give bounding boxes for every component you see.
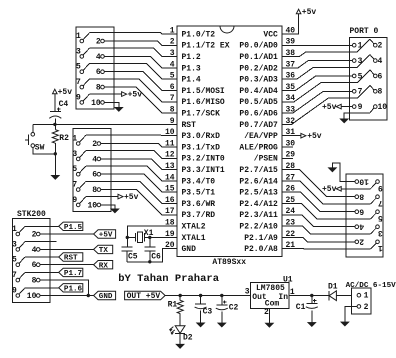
svg-text:18: 18	[165, 219, 175, 228]
ground below C2	[218, 323, 226, 327]
svg-text:bY Tahan Prahara: bY Tahan Prahara	[118, 273, 220, 285]
svg-text:XTAL2: XTAL2	[182, 223, 206, 232]
wire J1 to P1.0-P1.7	[90, 33, 178, 113]
svg-text:4: 4	[32, 246, 37, 255]
svg-text:P3.4/T0: P3.4/T0	[182, 177, 216, 186]
svg-text:30: 30	[286, 139, 296, 148]
svg-text:29: 29	[286, 151, 296, 160]
svg-text:10: 10	[27, 292, 37, 301]
supply +5v at PORT2 pin9	[322, 185, 371, 194]
svg-text:D2: D2	[183, 334, 193, 343]
svg-text:4: 4	[92, 155, 97, 164]
connector X2 AC/DC input	[346, 282, 396, 314]
svg-text:C3: C3	[203, 307, 213, 316]
wire STK200 pin8 to GND	[40, 280, 90, 297]
svg-text:33: 33	[286, 106, 296, 115]
capacitor C1	[296, 296, 318, 323]
net flag P1.6	[25, 284, 83, 294]
svg-text:+5v: +5v	[307, 132, 322, 141]
svg-text:R1: R1	[168, 301, 178, 310]
svg-text:4: 4	[96, 53, 101, 62]
svg-text:P3.2/INT0: P3.2/INT0	[182, 155, 225, 164]
svg-text:RX: RX	[99, 262, 109, 270]
label PORT 0	[350, 27, 379, 36]
svg-text:P1.7/SCK: P1.7/SCK	[182, 110, 221, 119]
ground below C1	[308, 322, 316, 326]
net flag OUT +5V	[125, 291, 181, 301]
resistor R2	[52, 124, 69, 153]
svg-text:10: 10	[359, 176, 369, 185]
ground below R2	[51, 152, 59, 179]
svg-text:P1.5: P1.5	[64, 224, 83, 232]
svg-text:P3.0/RxD: P3.0/RxD	[182, 132, 221, 141]
wire +5V rail	[179, 294, 251, 297]
net flag RX	[40, 261, 113, 271]
svg-text:2: 2	[364, 303, 369, 312]
connector STK200 pins	[12, 225, 40, 301]
wire XTAL ground rail to GND pin	[127, 249, 166, 264]
svg-text:In: In	[278, 293, 288, 302]
svg-text:P3.7/RD: P3.7/RD	[182, 211, 216, 220]
svg-text:PORT 0: PORT 0	[350, 27, 379, 36]
capacitor C4	[49, 100, 68, 124]
svg-text:P2.3/A11: P2.3/A11	[239, 211, 278, 220]
ground at PORT2 pin10	[328, 163, 355, 182]
connector PORT0 header box	[350, 38, 388, 120]
svg-text:9: 9	[358, 103, 363, 112]
ground at J2 pin10	[101, 205, 119, 213]
svg-text:ALE/PROG: ALE/PROG	[239, 143, 278, 152]
net flag +5V	[40, 230, 116, 240]
crystal X1	[136, 229, 154, 242]
svg-text:C4: C4	[59, 100, 69, 109]
svg-text:P1.6/MISO: P1.6/MISO	[182, 98, 225, 107]
wire RST net	[33, 123, 166, 126]
wire J2 to P3.0-P3.7	[86, 135, 177, 215]
svg-text:OUT +5V: OUT +5V	[127, 292, 161, 301]
svg-text:P2.0/A8: P2.0/A8	[244, 245, 278, 254]
wire XTAL1 node	[126, 236, 167, 239]
svg-text:10: 10	[378, 103, 388, 112]
label AT89Sxx	[212, 258, 246, 267]
capacitor C3	[195, 296, 213, 323]
connector J1 10-pin header box	[76, 27, 114, 109]
svg-text:/PSEN: /PSEN	[254, 155, 278, 164]
svg-text:/EA/VPP: /EA/VPP	[244, 132, 278, 141]
ground below D2	[176, 334, 184, 349]
svg-text:RST: RST	[182, 121, 197, 130]
svg-text:U1: U1	[283, 275, 293, 284]
supply +5v at PORT0 pin9	[322, 103, 352, 112]
LED D2	[170, 326, 193, 343]
svg-text:VCC: VCC	[263, 30, 278, 39]
svg-text:P3.1/TxD: P3.1/TxD	[182, 143, 221, 152]
svg-text:XTAL1: XTAL1	[182, 234, 206, 243]
wire ACDC pin2 to ground	[341, 306, 357, 326]
supply +5v flag at J1 pin9	[90, 91, 143, 100]
svg-text:P2.2/A10: P2.2/A10	[239, 223, 278, 232]
connector PORT0 pins	[352, 39, 387, 113]
svg-text:AT89Sxx: AT89Sxx	[212, 258, 246, 267]
svg-text:4: 4	[359, 222, 364, 231]
svg-text:4: 4	[378, 57, 383, 66]
svg-text:R2: R2	[59, 134, 69, 143]
svg-text:P1.4: P1.4	[182, 76, 201, 85]
svg-text:GND: GND	[99, 293, 113, 301]
svg-text:2: 2	[264, 308, 269, 317]
MCU left pins 1-20 labels	[165, 26, 230, 254]
connector J2 pins	[72, 134, 100, 210]
svg-text:P0.2/AD2: P0.2/AD2	[239, 64, 278, 73]
svg-text:2: 2	[96, 37, 101, 46]
connector J1 pins	[76, 32, 104, 108]
svg-text:2: 2	[378, 42, 383, 51]
resistor R1	[168, 296, 184, 326]
svg-text:8: 8	[92, 186, 97, 195]
switch SW pushbutton	[25, 124, 56, 153]
svg-text:C1: C1	[296, 303, 306, 312]
capacitor C5	[121, 247, 138, 262]
wire XTAL2 to C5	[127, 226, 166, 247]
svg-text:P2.1/A9: P2.1/A9	[244, 234, 278, 243]
wire 7805 Com to ground	[265, 309, 273, 328]
svg-text:6: 6	[378, 72, 383, 81]
wire STK200 pin3 stub	[25, 241, 57, 243]
svg-text:P3.3/INT1: P3.3/INT1	[182, 166, 225, 175]
svg-text:X1: X1	[144, 229, 154, 238]
svg-text:P1.5/MOSI: P1.5/MOSI	[182, 87, 225, 96]
svg-text:1: 1	[364, 292, 369, 301]
svg-text:+5v: +5v	[322, 103, 337, 112]
svg-text:RST: RST	[64, 255, 78, 263]
svg-text:+5v: +5v	[58, 88, 73, 97]
capacitor C2	[216, 296, 239, 323]
svg-text:10: 10	[87, 201, 97, 210]
connector PORT2 header box	[346, 174, 383, 257]
svg-text:2: 2	[32, 230, 37, 239]
svg-text:P3.6/WR: P3.6/WR	[182, 200, 216, 209]
wire P0 bus to PORT0	[292, 39, 371, 124]
MCU right pins 40-21 labels	[239, 26, 295, 254]
svg-text:P0.1/AD1: P0.1/AD1	[239, 53, 278, 62]
svg-text:P1.0/T2: P1.0/T2	[182, 30, 216, 39]
svg-text:P0.4/AD4: P0.4/AD4	[239, 87, 278, 96]
svg-text:20: 20	[165, 241, 175, 250]
svg-text:C2: C2	[229, 303, 239, 312]
svg-text:1: 1	[378, 243, 383, 252]
svg-text:8: 8	[359, 192, 364, 201]
net flag RST	[25, 253, 83, 263]
svg-text:P1.7: P1.7	[64, 270, 83, 278]
diode D1	[328, 282, 352, 300]
svg-text:STK200: STK200	[17, 210, 46, 219]
svg-text:AC/DC 6-15V: AC/DC 6-15V	[346, 282, 396, 290]
svg-text:+5v: +5v	[322, 185, 337, 194]
svg-text:6: 6	[92, 171, 97, 180]
wire 7805 In to D1	[289, 294, 329, 297]
svg-text:P2.5/A13: P2.5/A13	[239, 189, 278, 198]
label bY Tahan Prahara	[118, 273, 220, 285]
wire P2 bus to PORT2	[293, 170, 371, 249]
svg-text:P1.3: P1.3	[182, 64, 201, 73]
svg-text:C6: C6	[151, 252, 161, 261]
svg-text:2: 2	[359, 237, 364, 246]
svg-text:32: 32	[286, 117, 296, 126]
svg-text:6: 6	[96, 68, 101, 77]
net flag P1.7	[25, 268, 83, 278]
ground at J1 pin10	[104, 102, 123, 111]
svg-text:2: 2	[92, 140, 97, 149]
regulator U1 LM7805	[245, 275, 295, 317]
capacitor C6	[144, 237, 161, 261]
svg-text:P0.0/AD0: P0.0/AD0	[239, 42, 278, 51]
svg-text:P0.5/AD5: P0.5/AD5	[239, 98, 278, 107]
svg-text:SW: SW	[35, 144, 45, 153]
svg-text:P2.7/A15: P2.7/A15	[239, 166, 278, 175]
svg-text:10: 10	[91, 99, 101, 108]
svg-text:5: 5	[378, 213, 383, 222]
svg-text:P3.5/T1: P3.5/T1	[182, 189, 216, 198]
svg-text:P1.6: P1.6	[64, 285, 83, 293]
svg-text:19: 19	[165, 230, 175, 239]
svg-text:P2.4/A12: P2.4/A12	[239, 200, 278, 209]
IC AT89Sxx MCU body	[177, 26, 282, 257]
svg-text:+5v: +5v	[302, 8, 317, 17]
svg-text:6: 6	[359, 207, 364, 216]
svg-text:9: 9	[170, 117, 175, 126]
svg-text:6: 6	[32, 261, 37, 270]
net flag TX	[40, 245, 113, 255]
connector STK200 header box	[12, 218, 50, 302]
svg-text:+5v: +5v	[124, 193, 139, 202]
svg-text:C5: C5	[128, 252, 138, 261]
svg-text:D1: D1	[328, 282, 338, 291]
supply +5v to /EA pin31	[293, 132, 322, 141]
svg-text:+5v: +5v	[128, 91, 143, 100]
supply +5v to VCC pin40	[293, 8, 317, 34]
supply +5v flag at J2 pin9	[86, 193, 139, 202]
svg-text:GND: GND	[182, 245, 197, 254]
svg-text:P0.7/AD7: P0.7/AD7	[239, 121, 278, 130]
svg-text:TX: TX	[99, 247, 109, 255]
svg-text:P2.6/A14: P2.6/A14	[239, 177, 278, 186]
svg-text:+5V: +5V	[99, 232, 113, 240]
svg-text:8: 8	[378, 88, 383, 97]
svg-text:8: 8	[32, 277, 37, 286]
svg-text:3: 3	[378, 228, 383, 237]
ground at PORT0 pin10	[340, 113, 370, 123]
svg-text:P1.1/T2 EX: P1.1/T2 EX	[182, 42, 230, 51]
connector J2 10-pin header box	[73, 129, 111, 212]
ground below C3	[196, 323, 204, 327]
connector PORT2 pins	[355, 176, 383, 252]
svg-text:9: 9	[378, 183, 383, 192]
label STK200	[17, 210, 46, 219]
svg-text:P0.3/AD3: P0.3/AD3	[239, 76, 278, 85]
svg-text:P0.6/AD6: P0.6/AD6	[239, 110, 278, 119]
svg-text:P1.2: P1.2	[182, 53, 201, 62]
svg-text:3: 3	[245, 288, 250, 297]
supply +5v to C4	[53, 88, 73, 111]
net flag P1.5	[25, 222, 83, 232]
svg-text:8: 8	[96, 84, 101, 93]
net flag GND	[40, 291, 116, 301]
svg-text:7: 7	[378, 198, 383, 207]
